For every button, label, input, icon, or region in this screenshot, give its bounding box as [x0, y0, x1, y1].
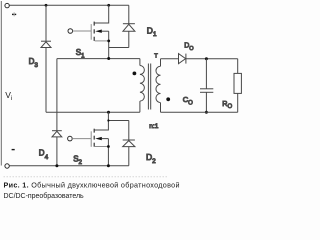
capacitor Co — [200, 59, 213, 113]
svg-text:D2: D2 — [146, 152, 156, 165]
transformer T primary winding — [140, 59, 144, 113]
node Co bottom — [205, 111, 208, 114]
left figure border line — [0, 1, 2, 166]
node top rail / D3 — [45, 4, 48, 7]
wire D4 anode to bottom rail — [56, 137, 58, 166]
svg-text:RO: RO — [222, 99, 232, 110]
wire output bottom — [161, 111, 238, 113]
transformer T secondary winding — [156, 59, 161, 113]
diode Do — [179, 54, 186, 64]
wire secondary top to Do — [161, 58, 179, 60]
svg-text:DO: DO — [184, 42, 194, 52]
node S2 source — [107, 145, 110, 148]
transistor S2 gate terminal — [68, 136, 73, 141]
transformer core — [148, 64, 150, 110]
svg-text:DC/DC-преобразователь: DC/DC-преобразователь — [4, 192, 85, 200]
wire bottom rail — [9, 165, 128, 167]
plus sign — [12, 12, 16, 16]
wire S2 gate lead — [72, 138, 91, 140]
svg-text:D1: D1 — [147, 26, 157, 39]
node bottom rail / D4 — [55, 164, 58, 167]
wire output top — [186, 58, 238, 60]
node primary-bottom / S2-D2 branch — [107, 111, 110, 114]
svg-text:T: T — [154, 53, 158, 59]
secondary phasing dot — [166, 97, 170, 101]
svg-text:Рис. 1. Обычный двухключевой о: Рис. 1. Обычный двухключевой обратноходо… — [4, 180, 180, 189]
wire primary-top rail — [57, 58, 140, 60]
svg-text:CO: CO — [183, 95, 193, 107]
minus sign — [12, 149, 15, 150]
wire S1 gate lead — [73, 30, 92, 32]
svg-text:S2: S2 — [73, 155, 82, 166]
terminal + (input plus) — [5, 3, 9, 7]
svg-text:n:1: n:1 — [149, 123, 158, 130]
diode D2 with leads — [123, 121, 135, 166]
resistor Ro with leads — [234, 59, 241, 113]
wire D4 cathode up to primary-top wire — [56, 59, 58, 131]
svg-text:D4: D4 — [39, 149, 49, 161]
wire top rail — [9, 4, 128, 6]
transistor S1 gate terminal — [68, 29, 73, 34]
node primary-top / S1 — [107, 57, 110, 60]
svg-text:S1: S1 — [76, 48, 85, 59]
diode D3 — [41, 41, 51, 47]
transistor S2 — [91, 112, 108, 165]
diode D4 — [52, 131, 62, 137]
svg-text:Vi: Vi — [5, 90, 12, 102]
wire primary-bottom rail — [46, 111, 140, 113]
node S1 source — [107, 40, 110, 43]
node link — [107, 119, 109, 121]
wire S2/D2 link — [108, 120, 128, 122]
wire D3 cathode — [45, 5, 47, 41]
caption separator dotted line — [4, 176, 168, 178]
diode D1 with leads — [109, 5, 135, 47]
svg-text:D3: D3 — [29, 57, 39, 69]
primary phasing dot — [133, 72, 137, 76]
node top rail / S1 drain — [107, 4, 110, 7]
wire D3 anode down to primary-bottom wire — [45, 48, 47, 113]
node Co top — [205, 57, 208, 60]
terminal - (input minus) — [5, 164, 9, 168]
transistor S1 — [91, 5, 109, 58]
node bottom rail / S2 — [107, 164, 110, 167]
